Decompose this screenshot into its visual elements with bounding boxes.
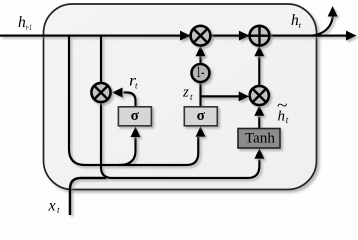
svg-text:σ: σ [131,108,140,124]
svg-text:z: z [182,85,189,101]
svg-text:1-: 1- [196,64,205,81]
svg-text:t-1: t-1 [26,22,32,32]
svg-text:t: t [57,205,60,215]
svg-text:σ: σ [197,108,206,124]
svg-text:Tanh: Tanh [245,130,276,147]
svg-text:x: x [48,198,56,215]
svg-text:~: ~ [277,96,288,115]
